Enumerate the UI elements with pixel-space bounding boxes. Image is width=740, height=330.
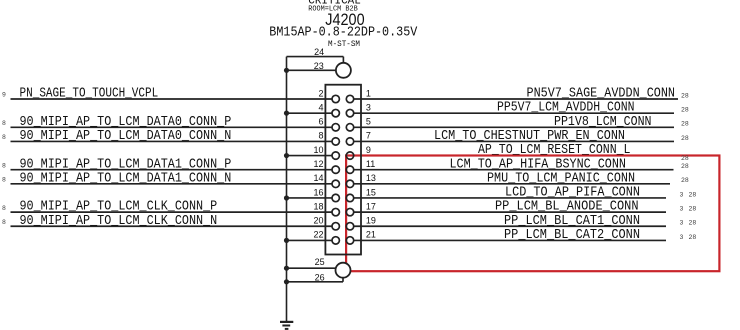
svg-text:3: 3 <box>366 102 371 112</box>
svg-text:8: 8 <box>2 205 6 212</box>
svg-text:17: 17 <box>366 201 376 211</box>
svg-text:19: 19 <box>366 216 376 226</box>
svg-text:3: 3 <box>680 220 684 227</box>
svg-text:28: 28 <box>681 107 689 114</box>
svg-text:1: 1 <box>366 88 371 98</box>
svg-text:8: 8 <box>318 131 323 141</box>
svg-text:7: 7 <box>366 131 371 141</box>
svg-text:4: 4 <box>318 102 323 112</box>
svg-text:26: 26 <box>315 272 325 282</box>
svg-text:9: 9 <box>366 145 371 155</box>
svg-text:28: 28 <box>689 191 697 198</box>
svg-text:21: 21 <box>366 230 376 240</box>
svg-text:14: 14 <box>313 173 323 183</box>
svg-text:3: 3 <box>680 234 684 241</box>
svg-text:8: 8 <box>2 120 6 127</box>
svg-text:BM15AP-0.8-22DP-0.35V: BM15AP-0.8-22DP-0.35V <box>269 26 417 41</box>
svg-text:28: 28 <box>689 220 697 227</box>
svg-text:16: 16 <box>313 187 323 197</box>
svg-text:3: 3 <box>680 191 684 198</box>
svg-text:28: 28 <box>681 177 689 184</box>
svg-text:28: 28 <box>681 155 689 162</box>
svg-text:8: 8 <box>2 162 6 169</box>
svg-text:90_MIPI_AP_TO_LCM_DATA1_CONN_N: 90_MIPI_AP_TO_LCM_DATA1_CONN_N <box>20 170 232 186</box>
svg-text:13: 13 <box>366 173 376 183</box>
svg-text:23: 23 <box>314 61 324 71</box>
svg-text:6: 6 <box>318 117 323 127</box>
svg-text:28: 28 <box>681 163 689 170</box>
svg-text:28: 28 <box>681 92 689 99</box>
svg-text:PN_SAGE_TO_TOUCH_VCPL: PN_SAGE_TO_TOUCH_VCPL <box>20 86 159 102</box>
svg-text:9: 9 <box>2 92 6 99</box>
svg-text:8: 8 <box>2 134 6 141</box>
svg-text:28: 28 <box>681 121 689 128</box>
svg-text:90_MIPI_AP_TO_LCM_CLK_CONN_N: 90_MIPI_AP_TO_LCM_CLK_CONN_N <box>20 213 218 229</box>
svg-text:8: 8 <box>2 177 6 184</box>
svg-text:5: 5 <box>366 117 371 127</box>
svg-text:25: 25 <box>315 257 325 267</box>
svg-text:28: 28 <box>689 206 697 213</box>
svg-text:28: 28 <box>681 135 689 142</box>
svg-text:10: 10 <box>313 145 323 155</box>
svg-text:18: 18 <box>313 201 323 211</box>
svg-text:15: 15 <box>366 187 376 197</box>
svg-text:3: 3 <box>680 206 684 213</box>
svg-text:11: 11 <box>366 159 375 169</box>
svg-text:20: 20 <box>313 216 323 226</box>
svg-text:28: 28 <box>689 234 697 241</box>
svg-text:22: 22 <box>313 230 323 240</box>
svg-text:24: 24 <box>314 47 324 57</box>
svg-text:12: 12 <box>313 159 323 169</box>
svg-text:90_MIPI_AP_TO_LCM_DATA0_CONN_N: 90_MIPI_AP_TO_LCM_DATA0_CONN_N <box>20 128 232 144</box>
svg-text:2: 2 <box>318 88 323 98</box>
svg-text:8: 8 <box>2 219 6 226</box>
svg-text:PP_LCM_BL_CAT2_CONN: PP_LCM_BL_CAT2_CONN <box>504 227 640 243</box>
svg-text:M-ST-SM: M-ST-SM <box>328 40 360 49</box>
